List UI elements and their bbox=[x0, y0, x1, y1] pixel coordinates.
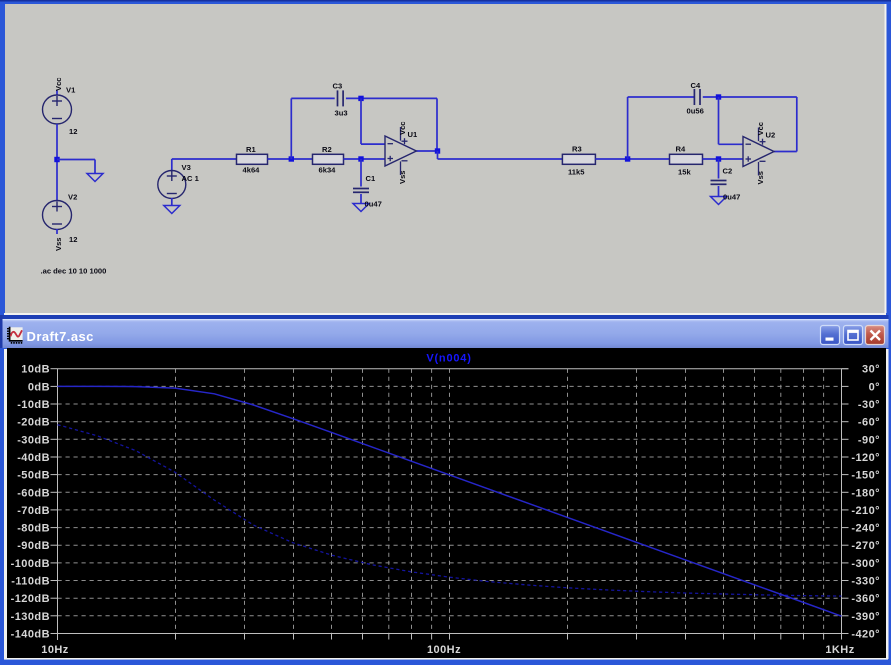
svg-text:-300°: -300° bbox=[851, 558, 880, 570]
svg-text:100Hz: 100Hz bbox=[427, 644, 461, 656]
svg-text:Vss: Vss bbox=[398, 170, 407, 184]
svg-text:AC 1: AC 1 bbox=[182, 174, 200, 183]
svg-text:0dB: 0dB bbox=[28, 381, 50, 393]
svg-text:C1: C1 bbox=[366, 174, 376, 183]
svg-text:V1: V1 bbox=[66, 86, 76, 95]
svg-text:3u3: 3u3 bbox=[335, 109, 348, 118]
svg-text:0u56: 0u56 bbox=[687, 107, 704, 116]
svg-text:-120°: -120° bbox=[851, 452, 880, 464]
svg-text:-120dB: -120dB bbox=[11, 593, 50, 605]
svg-text:-420°: -420° bbox=[851, 629, 880, 641]
svg-text:-20dB: -20dB bbox=[17, 417, 50, 429]
svg-text:-30dB: -30dB bbox=[17, 434, 50, 446]
svg-text:-270°: -270° bbox=[851, 540, 880, 552]
svg-text:-80dB: -80dB bbox=[17, 523, 50, 535]
svg-text:11k5: 11k5 bbox=[568, 167, 585, 176]
svg-text:U1: U1 bbox=[408, 130, 418, 139]
svg-text:-330°: -330° bbox=[851, 576, 880, 588]
svg-text:-130dB: -130dB bbox=[11, 611, 50, 623]
svg-text:C4: C4 bbox=[691, 81, 701, 90]
svg-text:U2: U2 bbox=[766, 131, 776, 140]
svg-text:-110dB: -110dB bbox=[11, 576, 50, 588]
svg-text:0°: 0° bbox=[869, 381, 880, 393]
svg-text:4k64: 4k64 bbox=[243, 166, 261, 175]
svg-text:R2: R2 bbox=[322, 145, 332, 154]
svg-text:10Hz: 10Hz bbox=[41, 644, 69, 656]
svg-text:Vcc: Vcc bbox=[756, 122, 765, 136]
svg-text:10dB: 10dB bbox=[21, 364, 50, 376]
svg-text:Vss: Vss bbox=[54, 237, 63, 251]
svg-text:-390°: -390° bbox=[851, 611, 880, 623]
svg-text:-70dB: -70dB bbox=[17, 505, 50, 517]
svg-text:-40dB: -40dB bbox=[17, 452, 50, 464]
svg-text:Draft7.asc: Draft7.asc bbox=[27, 329, 94, 344]
svg-text:-50dB: -50dB bbox=[17, 470, 50, 482]
svg-text:12: 12 bbox=[69, 127, 77, 136]
svg-text:-30°: -30° bbox=[858, 399, 880, 411]
svg-text:-60dB: -60dB bbox=[17, 487, 50, 499]
svg-text:0u47: 0u47 bbox=[723, 193, 740, 202]
svg-text:30°: 30° bbox=[862, 364, 880, 376]
svg-text:-10dB: -10dB bbox=[17, 399, 50, 411]
svg-text:-150°: -150° bbox=[851, 470, 880, 482]
svg-text:V2: V2 bbox=[68, 193, 77, 202]
svg-text:C2: C2 bbox=[723, 167, 733, 176]
svg-text:-210°: -210° bbox=[851, 505, 880, 517]
svg-text:-180°: -180° bbox=[851, 487, 880, 499]
svg-text:0u47: 0u47 bbox=[365, 200, 382, 209]
svg-text:R1: R1 bbox=[246, 145, 256, 154]
svg-text:-140dB: -140dB bbox=[11, 629, 50, 641]
svg-text:Vcc: Vcc bbox=[54, 77, 63, 91]
svg-text:15k: 15k bbox=[678, 167, 691, 176]
svg-text:-90dB: -90dB bbox=[17, 540, 50, 552]
svg-text:-100dB: -100dB bbox=[11, 558, 50, 570]
svg-text:Vss: Vss bbox=[756, 171, 765, 185]
svg-text:V3: V3 bbox=[182, 163, 191, 172]
svg-text:-360°: -360° bbox=[851, 593, 880, 605]
svg-text:R4: R4 bbox=[676, 145, 686, 154]
svg-text:-90°: -90° bbox=[858, 434, 880, 446]
svg-text:12: 12 bbox=[69, 235, 77, 244]
svg-text:C3: C3 bbox=[333, 82, 343, 91]
svg-text:6k34: 6k34 bbox=[319, 166, 337, 175]
svg-text:-240°: -240° bbox=[851, 523, 880, 535]
svg-text:V(n004): V(n004) bbox=[426, 353, 471, 365]
svg-text:-60°: -60° bbox=[858, 417, 880, 429]
svg-text:.ac dec 10 10 1000: .ac dec 10 10 1000 bbox=[41, 267, 107, 276]
svg-text:Vcc: Vcc bbox=[398, 121, 407, 135]
svg-text:R3: R3 bbox=[572, 145, 582, 154]
svg-text:1KHz: 1KHz bbox=[825, 644, 854, 656]
